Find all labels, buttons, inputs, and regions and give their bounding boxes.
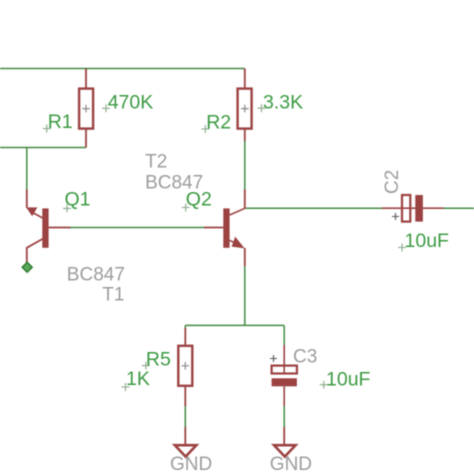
wire R2 bottom to Q2 collector: [244, 141, 246, 190]
R1 value 470K: [102, 91, 153, 113]
svg-text:BC847: BC847: [145, 173, 203, 194]
collector diagonal: [230, 208, 245, 215]
svg-text:3.3K: 3.3K: [263, 91, 303, 113]
arrow on upper lead: [26, 207, 37, 216]
wire top rail from left edge to R2 top: [0, 68, 245, 70]
wire vertical to Q1 collector: [26, 148, 28, 191]
svg-text:BC847: BC847: [67, 264, 125, 285]
R5 value 1K: [122, 368, 150, 391]
svg-text:GND: GND: [170, 454, 212, 474]
wire Q2 collector to C2: [245, 207, 382, 209]
top plate hollow: [272, 366, 297, 374]
base lead: [204, 227, 223, 229]
capacitor C2: [382, 195, 444, 222]
resistor R1: [79, 69, 93, 148]
wire Q1 base to Q2 base: [70, 227, 205, 229]
polarity plus: [270, 355, 277, 362]
polarity plus: [392, 213, 399, 220]
svg-text:T1: T1: [102, 285, 124, 306]
emitter pin vertical: [244, 248, 246, 266]
transistor Q1: [26, 190, 70, 265]
right plate filled: [415, 195, 423, 222]
svg-text:10uF: 10uF: [326, 369, 371, 391]
svg-text:T2: T2: [145, 152, 167, 173]
wire Q2 emitter down: [244, 266, 246, 326]
top pin: [283, 345, 285, 373]
ground symbol GND1: [175, 427, 197, 457]
svg-text:C2: C2: [382, 170, 403, 194]
svg-text:R1: R1: [48, 111, 73, 133]
wire C2 to right edge: [444, 207, 474, 209]
bottom pin: [283, 386, 285, 406]
bottom plate filled: [272, 378, 297, 386]
base bar: [42, 208, 48, 247]
svg-text:10uF: 10uF: [405, 230, 450, 252]
svg-text:470K: 470K: [108, 91, 154, 113]
wire R5 to GND: [184, 406, 186, 428]
wire down to R5: [184, 325, 186, 330]
label R1: [43, 111, 73, 133]
left plate hollow: [402, 195, 410, 222]
ground symbol GND2: [274, 427, 296, 457]
left pin: [382, 207, 416, 209]
svg-text:Q1: Q1: [65, 189, 91, 211]
resistor R5: [178, 328, 192, 406]
svg-text:GND: GND: [270, 454, 312, 474]
wire left mid from left edge to R1 bottom: [0, 147, 86, 149]
C2 value 10uF: [398, 230, 449, 252]
emitter diagonal: [27, 239, 43, 265]
label Q2: [182, 189, 212, 212]
wire C3 to GND: [283, 406, 285, 428]
right pin: [423, 207, 444, 209]
label Q1: [63, 189, 91, 213]
collector pin vertical: [26, 190, 28, 209]
svg-text:1K: 1K: [126, 368, 150, 390]
transistor Q2: [204, 190, 245, 267]
emitter diagonal with arrow: [230, 240, 240, 245]
R2 value 3.3K: [258, 91, 304, 113]
svg-text:C3: C3: [293, 346, 317, 367]
pin end dot Q1 emitter: [22, 262, 32, 272]
capacitor C3: [270, 345, 297, 406]
collector pin vertical: [244, 190, 246, 209]
resistor R2: [238, 69, 252, 142]
svg-text:R2: R2: [206, 112, 231, 134]
C3 value 10uF: [320, 369, 371, 391]
base bar: [223, 208, 229, 247]
label R2: [201, 112, 231, 134]
wire bottom horizontal: [185, 324, 284, 326]
label R5: [142, 349, 171, 371]
base lead: [49, 227, 71, 229]
wire down to C3: [283, 325, 285, 345]
